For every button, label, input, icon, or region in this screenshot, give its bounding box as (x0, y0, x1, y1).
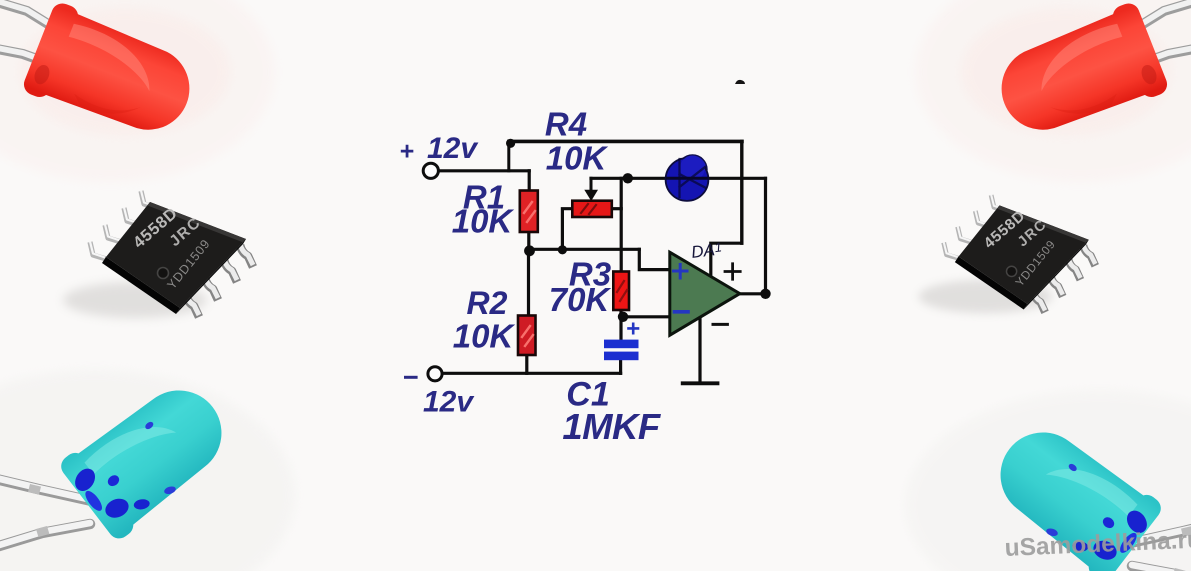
resistor R3 (613, 272, 629, 311)
wire: pot branch vertical to R3 (620, 178, 623, 271)
top pins (90, 191, 157, 259)
terminal +12v (423, 163, 438, 178)
svg-text:10K: 10K (546, 140, 609, 177)
wire: dip to op-amp + input (639, 249, 670, 269)
node: R1 bottom junction (524, 245, 535, 256)
svg-text:12v: 12v (427, 132, 479, 165)
wire: output riser (764, 178, 767, 294)
photo: IC chip 4558D left (63, 191, 253, 319)
led lead 2 (0, 48, 48, 63)
wire: R1 bottom to mid rail (527, 231, 530, 250)
wire: transistor line (628, 177, 766, 180)
svg-text:R4: R4 (545, 106, 587, 143)
led lead 1 (0, 1, 56, 29)
navy reflection blobs (flange end) (71, 465, 99, 495)
resistor R1 (520, 191, 538, 233)
pot wiper arrowhead (584, 190, 598, 201)
wire: right drop from top rail (740, 141, 743, 243)
photo: teal LED bottom-right (mirror, shifted) (979, 410, 1191, 571)
svg-text:10K: 10K (452, 203, 515, 240)
wire: wiper horizontal (591, 177, 628, 180)
wire: pot left lead riser (562, 209, 572, 250)
small ink smudge top (735, 80, 745, 84)
photo: red LED top-right (mirror) (961, 0, 1191, 149)
wire: to op-amp V+ pin (711, 243, 742, 278)
wire: capacitor bottom lead (619, 360, 622, 374)
schematic (423, 80, 771, 383)
wire: pot right lead (612, 207, 622, 210)
wire: down into R1 (528, 171, 531, 191)
label -12v (404, 376, 418, 379)
photo: red LED top-left (0, 0, 230, 149)
node: wiper junction (623, 173, 633, 183)
ground (683, 381, 718, 385)
node: R3 bottom junction (618, 312, 628, 322)
node: pot left junction (558, 245, 567, 254)
svg-text:12v: 12v (423, 386, 475, 419)
led body (56, 368, 243, 544)
node: output junction (760, 289, 770, 299)
led lead 2 (0, 523, 90, 547)
wire: R1/R2 column (527, 249, 530, 316)
wire: R2 bottom lead (525, 354, 528, 373)
led body (21, 0, 205, 149)
terminal -12v (428, 367, 442, 381)
potentiometer (variable resistor) (572, 201, 612, 217)
photo: IC chip 4558D right (919, 195, 1096, 314)
svg-text:R2: R2 (467, 285, 508, 321)
schematic labels (400, 106, 662, 448)
wire: +12v terminal to R1 top corner (440, 169, 529, 172)
svg-text:+: + (400, 138, 415, 166)
svg-text:70K: 70K (549, 281, 612, 318)
wire: R3 bottom through junction to capacitor (619, 309, 622, 340)
wire: op-amp V- pin (698, 319, 701, 383)
wire: mid rail (529, 248, 640, 251)
transistor (blue ball) (666, 155, 709, 201)
node: top rail left junction (506, 139, 515, 148)
chip body (106, 202, 246, 308)
wire: bottom rail (444, 372, 621, 375)
chip shadow (63, 282, 207, 318)
svg-text:10K: 10K (453, 318, 516, 355)
op-amp DA1 (670, 252, 740, 335)
resistor R2 (518, 316, 536, 356)
wire: op-amp output (739, 292, 766, 295)
op-amp - input symbol (675, 310, 689, 314)
index dot (158, 268, 169, 279)
photo: teal LED bottom-left (0, 368, 243, 547)
bottom pins (186, 244, 253, 317)
capacitor C1 plates (604, 324, 639, 360)
wire: riser from +12v wire up to top rail (507, 142, 510, 171)
wire: R3 bottom to inverting input (623, 315, 670, 318)
wire: wiper vertical with arrow (590, 178, 593, 192)
external + symbol (725, 264, 740, 279)
op-amp + input symbol (674, 265, 688, 279)
svg-text:1MKF: 1MKF (562, 406, 662, 447)
soft corner tints (0, 0, 275, 182)
led lead 1 (0, 478, 92, 501)
wire: R4 top rail (509, 140, 742, 144)
external - symbol (713, 323, 727, 326)
